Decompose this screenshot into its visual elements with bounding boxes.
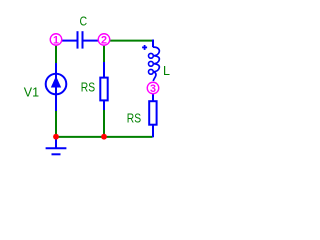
svg-text:RS: RS	[81, 80, 95, 94]
svg-text:RS: RS	[127, 112, 141, 126]
svg-text:1: 1	[53, 35, 59, 47]
wire node2 down to RS	[103, 45, 105, 63]
inductor L coil loops	[149, 53, 154, 58]
junction dot left	[53, 134, 59, 140]
inductor L lead from corner	[152, 40, 154, 48]
inductor L coil	[153, 47, 159, 81]
svg-text:3: 3	[150, 83, 156, 95]
svg-text:2: 2	[101, 35, 107, 47]
node 3	[147, 82, 159, 95]
junction dot middle	[101, 134, 107, 140]
current source V1 lead	[55, 63, 57, 111]
resistor RS (right) leads	[152, 94, 154, 102]
wire bottom rail	[55, 136, 153, 138]
ground	[46, 137, 67, 154]
current source V1 circle	[46, 74, 67, 95]
resistor RS (middle) leads	[103, 62, 105, 78]
capacitor C lead right	[84, 40, 99, 42]
svg-text:C: C	[80, 14, 88, 28]
wire V1 to bottom rail	[55, 111, 57, 137]
capacitor C plates	[77, 31, 79, 48]
node 1	[50, 34, 62, 47]
inductor plus polarity	[142, 45, 147, 50]
resistor RS (middle) body	[100, 78, 107, 101]
svg-text:V1: V1	[24, 85, 39, 99]
wire node2 right to inductor corner	[109, 40, 152, 42]
wire node1 to V1	[55, 40, 57, 63]
resistor RS (right) body	[149, 101, 156, 125]
capacitor C lead left	[62, 40, 77, 42]
wire RS to bottom rail	[103, 110, 105, 137]
svg-text:L: L	[163, 64, 170, 78]
current source V1 arrow	[52, 77, 61, 87]
node 2	[98, 34, 110, 47]
